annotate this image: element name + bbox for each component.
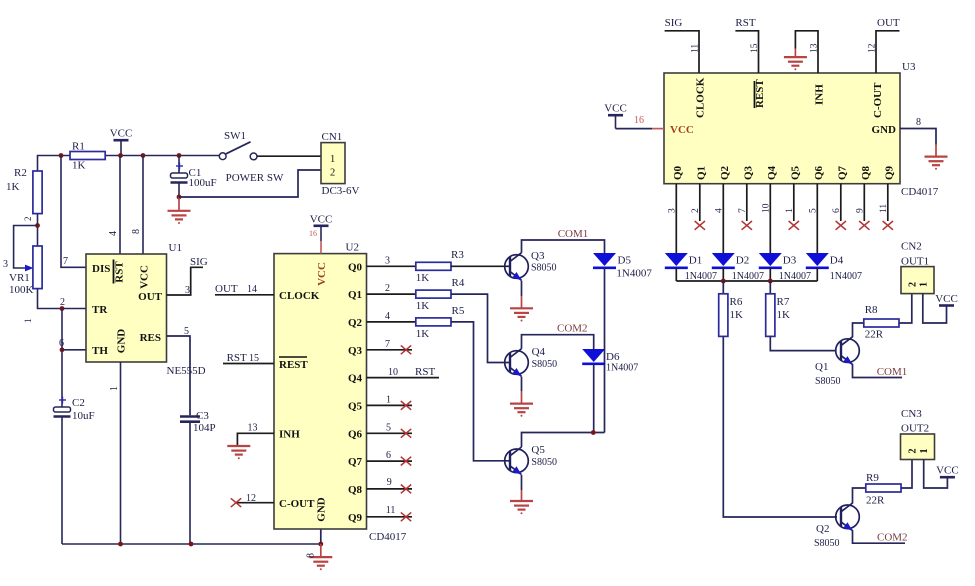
svg-text:6: 6 [386,450,391,461]
svg-text:DC3-6V: DC3-6V [322,185,360,197]
svg-text:4: 4 [108,231,119,236]
resistor R1 [70,141,105,172]
svg-text:100K: 100K [9,284,34,296]
svg-text:C-OUT: C-OUT [872,82,884,118]
svg-text:1K: 1K [730,309,744,321]
svg-text:VCC: VCC [316,262,328,286]
wire D5 cathode down to Q5 collector net [604,268,606,433]
svg-text:4: 4 [714,208,724,213]
junction C1 bottom [177,195,182,200]
svg-text:NE555D: NE555D [167,365,206,377]
wire RES pin5 to C3 [167,326,191,415]
svg-text:22R: 22R [866,495,885,507]
junction rail-U1gnd [118,542,123,547]
wire U1 GND pin1 to rail [109,362,121,544]
svg-text:Q5: Q5 [789,165,801,180]
svg-text:1: 1 [919,282,930,287]
wire R7 to Q1 base [770,336,836,350]
svg-text:VCC: VCC [139,265,151,289]
svg-text:R4: R4 [452,277,465,289]
svg-text:15: 15 [750,43,760,53]
wire U2 Q5 nc [367,395,413,410]
svg-text:Q6: Q6 [348,428,363,440]
svg-text:C3: C3 [196,410,209,422]
svg-text:R9: R9 [866,472,879,484]
svg-text:10: 10 [761,203,771,213]
svg-text:100uF: 100uF [189,177,217,189]
svg-text:Q9: Q9 [348,512,363,524]
svg-text:Q4: Q4 [348,373,363,385]
wire R8 to CN2 pin2 [899,294,912,324]
svg-text:14: 14 [247,284,257,295]
wire U3 Q8 nc [855,184,869,230]
junction rail-VCC [118,153,123,158]
svg-text:1K: 1K [416,328,430,340]
wire Q3 collector COM1 [522,240,605,253]
svg-text:R7: R7 [777,296,790,308]
svg-text:GND: GND [316,497,328,522]
wire DIS [61,156,86,268]
wire U2 Q3 nc [367,339,413,354]
wire OUT to SIG [167,267,204,296]
svg-text:INH: INH [814,84,826,105]
wire U3 Q0 to diode [667,184,677,253]
svg-text:11: 11 [879,204,889,213]
junction bus-R6 [721,279,726,284]
svg-text:1: 1 [23,319,33,324]
wire Q4 emitter to ground [521,377,523,392]
svg-text:1K: 1K [6,181,20,193]
svg-text:10uF: 10uF [72,410,95,422]
svg-text:Q2: Q2 [719,165,731,180]
wire U3 CLOCK to SIG [665,31,701,73]
wire Q1 collector to R8 [853,323,864,337]
transistor Q5 [505,444,557,475]
svg-text:S8050: S8050 [531,457,557,468]
svg-text:VR1: VR1 [9,272,30,284]
svg-text:8: 8 [306,553,317,558]
svg-text:OUT: OUT [877,17,900,29]
svg-text:RST: RST [415,366,435,378]
svg-text:15: 15 [249,353,259,364]
wire U2 Q9 nc [367,505,413,521]
svg-text:1N4007: 1N4007 [616,268,652,280]
ground Q5 [510,501,533,510]
wire D1 cathode to bus [675,268,677,281]
svg-text:1N4007: 1N4007 [830,271,862,282]
junction rail-DIS [59,153,64,158]
svg-text:U3: U3 [902,61,916,73]
svg-text:2: 2 [908,282,919,287]
vcc symbol U3 left [604,103,627,129]
svg-text:104P: 104P [193,422,216,434]
wire U2 Q1 to R4 [367,283,416,294]
svg-text:Q2: Q2 [816,523,829,535]
svg-text:2: 2 [908,449,919,454]
wire U3 GND pin8 to ground [900,117,936,157]
svg-text:POWER SW: POWER SW [226,172,284,184]
resistor R5 [416,305,465,340]
svg-text:REST: REST [279,359,308,371]
diode D5 [593,253,652,280]
junction rail-U2gnd [318,542,323,547]
wire D2 cathode to bus [722,268,724,281]
transistor Q1 [815,337,859,387]
svg-text:GND: GND [872,124,897,136]
ground at U2 INH [227,446,250,455]
svg-text:COM2: COM2 [557,323,588,335]
wire R4 to Q4 base [451,294,510,362]
svg-text:Q9: Q9 [883,165,895,180]
svg-text:SIG: SIG [190,256,208,268]
svg-text:U2: U2 [346,242,359,254]
svg-text:1: 1 [919,449,930,454]
svg-text:S8050: S8050 [814,538,840,549]
wire U3 Q6 to diode [808,184,818,253]
svg-text:CLOCK: CLOCK [695,77,707,118]
svg-text:7: 7 [63,256,68,267]
wire VR1 to TR [38,289,87,309]
svg-text:1: 1 [386,395,391,406]
VCC symbol (left) [110,128,133,156]
wire U2 GND pin to rail [320,529,322,544]
svg-text:3: 3 [3,259,8,270]
wire VR1 wiper [3,226,38,272]
resistor R6 [719,294,743,337]
wire D4 cathode to bus [816,268,818,281]
svg-text:D5: D5 [618,255,632,267]
svg-text:CN2: CN2 [901,241,922,253]
svg-text:CN3: CN3 [901,408,922,420]
svg-text:1: 1 [109,386,120,391]
svg-text:OUT2: OUT2 [901,423,929,435]
wire TR-TH-C2 vertical [61,309,63,408]
wire U2 Q7 nc [367,450,413,466]
svg-text:S8050: S8050 [532,359,558,370]
vcc symbol at CN3 [940,476,955,479]
svg-text:1N4007: 1N4007 [606,363,638,374]
svg-text:8: 8 [916,117,921,128]
wire U3 INH to ground [795,31,819,73]
svg-text:RST: RST [735,17,755,29]
transistor Q3 [505,250,557,280]
wire R9 to CN3 pin2 [901,460,912,489]
diode D6 [582,349,638,374]
wire U3 Q7 nc [832,184,846,230]
vcc symbol at CN2 [939,304,954,307]
svg-text:1K: 1K [416,272,430,284]
wire Q5 emitter to ground [521,475,523,490]
connector CN2 [901,241,934,294]
svg-text:VCC: VCC [935,293,958,305]
svg-text:VCC: VCC [604,103,627,115]
wire C-OUT U2 no-connect [231,493,274,507]
junction TH node [59,338,64,352]
svg-text:5: 5 [184,326,189,337]
wire U2 Q2 to R5 [367,311,416,322]
wire U3 Q3 nc [738,184,752,230]
svg-text:OUT1: OUT1 [901,256,929,268]
wire bus to R7 [769,281,771,294]
svg-text:5: 5 [808,208,818,213]
connector CN1 [321,131,359,197]
svg-text:1K: 1K [72,160,86,172]
vcc symbol above U2 [309,213,332,253]
wire R6 to Q2 base [723,336,837,517]
svg-text:1: 1 [330,154,335,165]
wire Q2 collector to R9 [853,488,866,504]
svg-text:3: 3 [667,208,677,213]
svg-text:D3: D3 [783,255,797,267]
svg-text:1K: 1K [416,300,430,312]
svg-text:6: 6 [832,208,842,213]
svg-text:2: 2 [23,217,33,222]
capacitor C3 [180,410,216,434]
svg-text:RST: RST [227,352,247,364]
svg-text:R8: R8 [865,304,878,316]
svg-text:Q6: Q6 [813,165,825,180]
svg-text:Q1: Q1 [695,166,707,180]
svg-text:3: 3 [385,256,390,267]
svg-text:VCC: VCC [110,128,133,140]
svg-text:CD4017: CD4017 [369,531,407,543]
svg-text:R3: R3 [451,249,464,261]
ground at U3 GND [925,157,948,166]
svg-text:Q3: Q3 [742,165,754,180]
wire VCC to U3 pin16 [616,128,653,130]
capacitor C1 [171,156,217,198]
svg-text:12: 12 [246,493,256,504]
svg-text:1K: 1K [777,309,791,321]
svg-text:R1: R1 [72,141,85,153]
svg-text:REST: REST [754,79,766,108]
svg-text:C-OUT: C-OUT [279,498,315,510]
svg-text:INH: INH [279,429,300,441]
ground Q4 [510,404,533,413]
svg-text:11: 11 [386,505,396,516]
svg-text:13: 13 [810,43,820,53]
svg-text:U1: U1 [169,242,182,254]
ic U2 CD4017 [274,242,407,544]
svg-text:Q2: Q2 [348,317,363,329]
diode D3 [759,253,811,282]
wire D6 cathode down [593,364,595,433]
svg-text:RES: RES [140,332,161,344]
wire CLOCK U2 with OUT label [215,283,274,295]
svg-text:3: 3 [185,285,190,296]
svg-text:CD4017: CD4017 [901,186,939,198]
svg-text:13: 13 [248,423,258,434]
ground at U3 INH [794,49,796,58]
svg-text:S8050: S8050 [815,376,841,387]
junction D6-collector net [591,430,596,435]
svg-text:D6: D6 [606,351,620,363]
wire pin8 VCC to rail [142,156,144,255]
svg-text:11: 11 [691,44,701,53]
wire diode bus [676,280,817,282]
svg-text:7: 7 [738,208,748,213]
resistor R9 [866,472,901,507]
wire U2 Q8 nc [367,477,413,493]
wire C3 to bottom rail [189,422,191,544]
svg-text:Q7: Q7 [348,456,363,468]
wire REST U2 with RST label [223,352,274,364]
wire Q1 emitter COM1 [853,364,903,378]
svg-text:S8050: S8050 [531,263,557,274]
svg-text:CLOCK: CLOCK [279,290,320,302]
svg-text:1: 1 [785,208,795,213]
svg-text:Q3: Q3 [531,250,545,262]
svg-text:Q4: Q4 [766,165,778,180]
ground under C1 [168,197,191,224]
resistor R3 [416,249,465,284]
wire CN2 pin1 to VCC [923,294,947,324]
diode D2 [712,253,764,282]
svg-text:22R: 22R [865,329,884,341]
wire Q2 emitter COM2 [853,530,906,543]
svg-text:CN1: CN1 [322,131,343,143]
wire C2 to bottom rail [61,417,63,545]
svg-text:TH: TH [92,345,108,357]
wire U3 Q5 nc [785,184,799,230]
junction rail-C1 [177,153,182,158]
svg-text:VCC: VCC [670,124,694,136]
svg-text:8: 8 [131,229,142,234]
wire INH U2 to ground [237,423,274,447]
svg-text:SW1: SW1 [224,130,246,142]
wire U2 Q0 to R3 [367,256,416,267]
svg-text:D1: D1 [689,255,702,267]
svg-text:Q0: Q0 [672,165,684,180]
wire R2 to VR1 [37,214,39,246]
wire U3 Q9 nc [879,184,893,230]
wire pin4 RST to rail [119,156,121,255]
svg-text:DIS: DIS [92,263,110,275]
diode D1 [665,253,717,282]
svg-text:OUT: OUT [138,291,163,303]
wire D3 cathode to bus [769,268,771,281]
svg-text:Q8: Q8 [860,165,872,180]
resistor R7 [766,294,790,337]
svg-text:12: 12 [868,43,878,53]
svg-text:OUT: OUT [215,283,238,295]
svg-text:TR: TR [92,304,108,316]
capacitor C2 [54,397,95,423]
wire Q3 emitter to ground [521,281,523,297]
wire R3 to Q3 base [451,265,510,267]
wire TH [62,349,86,351]
svg-text:Q1: Q1 [348,289,362,301]
switch SW1 [219,130,284,184]
svg-text:COM2: COM2 [877,532,908,544]
svg-text:COM1: COM1 [558,228,589,240]
transistor Q2 [814,503,859,549]
potentiometer VR1 [9,246,42,296]
wire SW1 to CN1 pin1 [257,155,321,157]
wire top VCC rail [38,156,223,172]
svg-text:D4: D4 [830,255,844,267]
svg-text:5: 5 [386,423,391,434]
svg-text:2: 2 [330,168,335,179]
wire Q5 collector run [522,433,605,448]
svg-text:COM1: COM1 [877,366,908,378]
svg-text:2: 2 [385,283,390,294]
svg-text:R2: R2 [14,167,27,179]
wire CN1 pin2 to C1/ground [179,170,321,197]
svg-text:9: 9 [855,208,865,213]
wire U3 Q4 to diode [761,184,771,253]
resistor R4 [416,277,465,312]
svg-text:9: 9 [387,477,392,488]
svg-text:D2: D2 [736,255,749,267]
wire bottom rail [62,543,321,545]
svg-text:Q1: Q1 [815,361,828,373]
wire R5 to Q5 base [451,322,510,461]
wire U3 C-OUT to OUT [868,31,900,73]
svg-text:R6: R6 [730,296,743,308]
connector CN3 [901,408,935,460]
ground Q3 [510,308,533,317]
wire U3 Q1 nc [691,184,705,230]
wire CN3 pin1 to VCC [924,460,948,489]
wire U2 Q4 RST net [367,366,440,378]
junction R2-VR1-wiper [35,223,40,228]
resistor R8 [864,304,899,341]
resistor R2 [6,167,42,214]
junction rail-pin8 [141,153,146,158]
wire Q4 collector COM2 [522,335,594,349]
svg-text:16: 16 [634,115,644,126]
svg-text:VCC: VCC [936,465,959,477]
wire U2 Q6 nc [367,423,413,438]
op-amp U1 NE555D [86,242,206,377]
svg-text:Q7: Q7 [836,165,848,180]
svg-text:C2: C2 [72,397,85,409]
junction TR node [60,297,65,311]
wire U3 Q2 to diode [714,184,724,253]
junction bus-R7 [768,279,773,284]
svg-text:SIG: SIG [665,17,683,29]
svg-text:4: 4 [385,311,390,322]
svg-text:Q8: Q8 [348,484,363,496]
svg-text:VCC: VCC [310,213,333,225]
transistor Q4 [505,346,557,376]
svg-text:10: 10 [388,367,398,378]
wire U3 REST to RST [735,31,760,73]
svg-text:RST: RST [114,261,126,283]
svg-text:2: 2 [691,208,701,213]
junction rail-C3 [189,542,194,547]
svg-text:Q4: Q4 [532,346,546,358]
svg-text:Q0: Q0 [348,261,363,273]
ic U3 CD4017 [664,61,939,198]
wire bus to R6 [722,281,724,294]
svg-text:R5: R5 [452,305,465,317]
svg-text:2: 2 [60,297,65,308]
svg-text:16: 16 [309,229,317,238]
ground U2 GND [306,544,333,570]
svg-text:GND: GND [116,329,128,354]
svg-text:7: 7 [385,339,390,350]
diode D4 [806,253,862,282]
svg-text:Q3: Q3 [348,345,363,357]
svg-text:Q5: Q5 [348,400,363,412]
svg-text:6: 6 [59,338,64,349]
svg-text:Q5: Q5 [531,444,545,456]
